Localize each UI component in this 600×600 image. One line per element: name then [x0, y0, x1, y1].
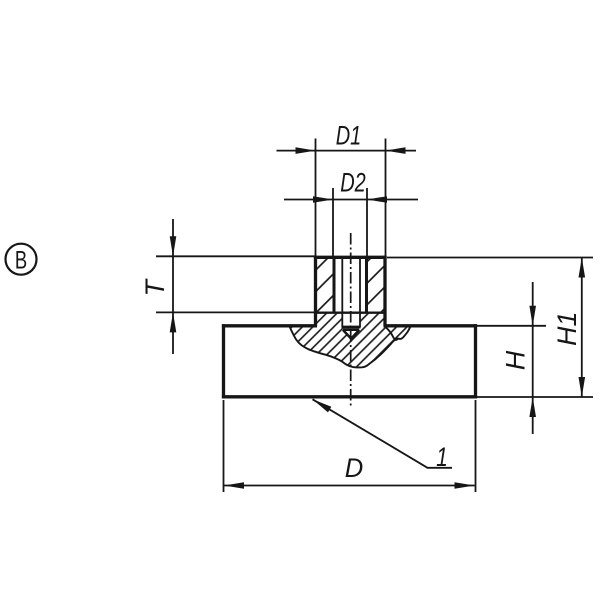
leader line for item 1 — [313, 399, 453, 468]
dimension T extension lines — [156, 256, 316, 312]
H label — [500, 350, 530, 370]
svg-text:D: D — [345, 453, 364, 484]
threaded hole white interior — [342, 257, 360, 338]
T arrowheads — [170, 236, 177, 256]
D2 arrowheads — [313, 196, 333, 203]
dimension D2 line — [284, 199, 418, 201]
dimension H1 extension lines — [387, 258, 593, 398]
section hatch: bushing right band (coarse) — [367, 257, 386, 312]
svg-text:B: B — [15, 246, 27, 274]
pot (base) outline — [222, 324, 477, 398]
svg-text:H1: H1 — [552, 312, 582, 347]
D arrowheads — [224, 482, 244, 489]
dimension H line — [532, 282, 534, 434]
dimension H1 line — [581, 258, 583, 398]
dimension D1 line — [277, 150, 417, 152]
thread end line — [342, 326, 361, 329]
bushing seam line — [316, 312, 386, 314]
centerline — [350, 233, 352, 408]
section hatch: pot material (dense) — [289, 313, 410, 368]
thread major diameter lines (thick) — [334, 257, 367, 312]
leader arrowhead — [311, 396, 332, 412]
bushing (boss) outline — [314, 256, 387, 326]
svg-text:D2: D2 — [340, 168, 366, 199]
datum letter B — [15, 246, 27, 274]
break line hook — [386, 327, 398, 340]
T label — [140, 278, 170, 297]
drill point cone — [343, 330, 359, 339]
item number 1 — [436, 443, 448, 473]
D label — [345, 453, 364, 484]
datum circle B — [6, 244, 37, 275]
svg-text:T: T — [140, 278, 170, 297]
H arrowheads — [529, 306, 536, 326]
svg-text:1: 1 — [436, 443, 448, 473]
D1 label — [336, 120, 362, 151]
dimension D line — [224, 485, 475, 487]
dimension T line — [172, 219, 174, 354]
D1 arrowheads — [296, 147, 316, 154]
dimension H extension line — [477, 325, 546, 327]
dimension D1 extension lines — [316, 139, 386, 257]
dimension D2 extension lines — [333, 188, 367, 256]
thread minor diameter lines (thin) — [342, 258, 360, 327]
H1 label — [552, 312, 582, 347]
svg-text:D1: D1 — [336, 120, 362, 151]
svg-text:H: H — [500, 350, 530, 370]
dimension D extension lines — [224, 400, 476, 492]
section hatch: bushing left band (coarse) — [316, 257, 335, 312]
D2 label — [340, 168, 366, 199]
H1 arrowheads — [579, 258, 586, 278]
break-out section boundary (freehand wavy line) — [289, 326, 410, 367]
